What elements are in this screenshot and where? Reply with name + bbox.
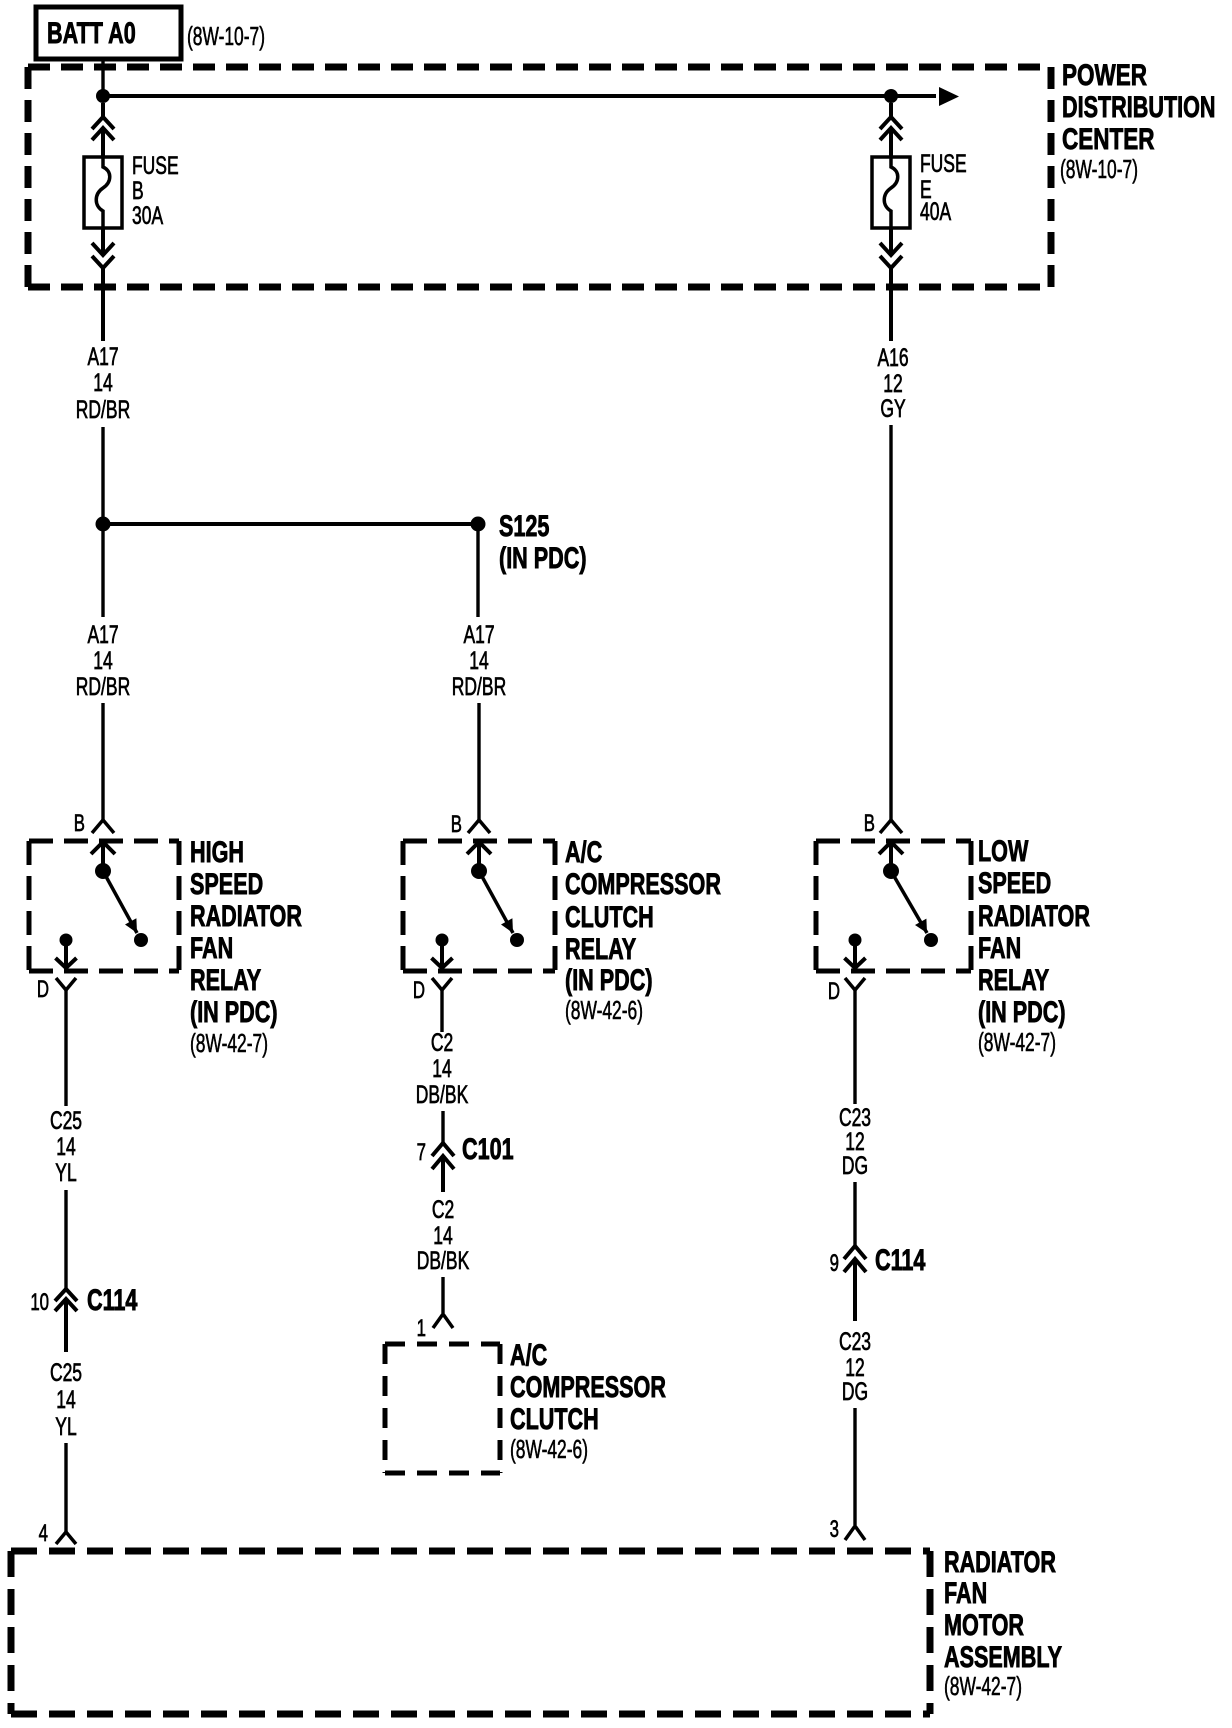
- svg-text:A/C: A/C: [510, 1337, 547, 1371]
- svg-text:3: 3: [830, 1516, 839, 1543]
- svg-text:(8W-42-6): (8W-42-6): [510, 1435, 588, 1464]
- relay 2 switch arm: [479, 871, 513, 933]
- pin 1 fork into A/C compressor clutch: [433, 1314, 453, 1328]
- svg-text:GY: GY: [880, 394, 905, 423]
- splice S125 horizontal wire: [103, 522, 478, 526]
- relay 3 common pivot dot: [883, 863, 899, 879]
- relay 1 name label: [190, 834, 302, 1057]
- svg-text:14: 14: [469, 646, 488, 675]
- wire label A17 14 RD/BR (left second): [76, 620, 130, 701]
- svg-text:A17: A17: [463, 620, 494, 649]
- wire label C25 14 YL (upper): [50, 1106, 82, 1187]
- wire fuse E down to relay 3 pin B: [889, 425, 892, 820]
- svg-text:DB/BK: DB/BK: [417, 1246, 470, 1275]
- svg-text:FAN: FAN: [978, 930, 1021, 964]
- svg-text:14: 14: [93, 368, 112, 397]
- connector C114 pin 10 chevrons: [55, 1289, 77, 1352]
- wire down to connector C114 pin 9: [853, 1182, 856, 1247]
- bus wire across PDC: [103, 94, 936, 98]
- svg-text:A17: A17: [87, 620, 118, 649]
- svg-text:SPEED: SPEED: [190, 866, 263, 900]
- svg-text:(8W-42-7): (8W-42-7): [190, 1029, 268, 1058]
- junction dot left of S125: [96, 517, 111, 532]
- fuse B top terminal chevrons: [92, 103, 114, 157]
- svg-text:(IN PDC): (IN PDC): [565, 962, 653, 996]
- junction node at fuse B: [96, 89, 110, 103]
- svg-text:C2: C2: [431, 1028, 453, 1057]
- relay 3 pin D arrow: [845, 938, 866, 968]
- svg-text:7: 7: [417, 1139, 426, 1166]
- A/C compressor clutch dashed box: [385, 1344, 500, 1473]
- wire down to relay 2 pin B: [477, 703, 480, 820]
- relay 1 contact dot: [134, 933, 148, 947]
- svg-text:4: 4: [39, 1520, 48, 1547]
- wire label A16 12 GY: [877, 343, 908, 423]
- svg-text:D: D: [413, 977, 425, 1004]
- wire label C25 14 YL (lower): [50, 1358, 82, 1441]
- relay 2 pin B arrow: [467, 842, 491, 871]
- svg-text:RD/BR: RD/BR: [76, 672, 130, 701]
- svg-text:RADIATOR: RADIATOR: [978, 898, 1090, 932]
- connector C101 pin 7 chevrons: [432, 1143, 454, 1192]
- svg-text:B: B: [864, 810, 875, 837]
- fuse E top terminal chevrons: [880, 103, 902, 157]
- svg-text:A/C: A/C: [565, 834, 602, 868]
- svg-text:RADIATOR: RADIATOR: [944, 1544, 1056, 1578]
- svg-text:(8W-42-7): (8W-42-7): [978, 1028, 1056, 1057]
- svg-text:RD/BR: RD/BR: [452, 672, 506, 701]
- power distribution center name label: [1060, 58, 1216, 184]
- svg-text:C114: C114: [875, 1242, 926, 1276]
- svg-text:YL: YL: [55, 1158, 76, 1187]
- wire label A17 14 RD/BR (middle): [452, 620, 506, 701]
- bus arrow head: [939, 87, 959, 106]
- svg-text:C25: C25: [50, 1358, 82, 1387]
- relay 2 pin D dot: [436, 934, 449, 947]
- pin 4 fork into fan motor assembly: [56, 1532, 76, 1544]
- low speed radiator fan relay dashed box: [816, 841, 971, 971]
- svg-text:(IN PDC): (IN PDC): [190, 994, 278, 1028]
- wire down to fan motor pin 3: [853, 1408, 856, 1525]
- relay 2 pin D fork: [432, 978, 452, 990]
- svg-text:LOW: LOW: [978, 833, 1029, 867]
- svg-text:(8W-10-7): (8W-10-7): [187, 22, 265, 51]
- relay 2 name label: [565, 834, 721, 1024]
- wire left column S125 to label: [101, 531, 104, 617]
- wire down to A/C compressor clutch pin 1: [441, 1277, 444, 1313]
- pin B fork into relay 1: [92, 820, 114, 833]
- svg-text:14: 14: [56, 1132, 75, 1161]
- svg-text:D: D: [37, 976, 49, 1003]
- wire down to connector C114 pin 10: [64, 1190, 67, 1289]
- svg-text:14: 14: [56, 1385, 75, 1414]
- svg-text:A17: A17: [87, 342, 118, 371]
- svg-text:9: 9: [830, 1250, 839, 1277]
- wire relay 3 pin D down: [853, 990, 856, 1104]
- svg-text:B: B: [451, 811, 462, 838]
- wire label C2 14 DB/BK (lower): [417, 1195, 470, 1275]
- svg-text:D: D: [828, 978, 840, 1005]
- fuse E: [872, 157, 910, 228]
- wire S125 down middle column: [476, 531, 479, 617]
- svg-text:(8W-42-7): (8W-42-7): [944, 1672, 1022, 1701]
- svg-text:C23: C23: [839, 1327, 871, 1356]
- svg-text:40A: 40A: [920, 197, 952, 226]
- wire down to relay 1 pin B: [101, 703, 104, 820]
- pin B fork into relay 3: [880, 820, 902, 833]
- svg-text:YL: YL: [55, 1412, 76, 1441]
- fuse E label FUSE E 40A: [920, 149, 967, 226]
- relay 3 switch arm: [891, 871, 927, 933]
- svg-text:FAN: FAN: [944, 1575, 987, 1609]
- svg-text:POWER: POWER: [1062, 58, 1147, 92]
- fuse B bottom terminal chevrons: [92, 228, 114, 341]
- wire label C23 12 DG (upper): [839, 1103, 871, 1180]
- svg-text:FAN: FAN: [190, 930, 233, 964]
- pin 3 fork into fan motor assembly: [845, 1526, 865, 1540]
- svg-text:RADIATOR: RADIATOR: [190, 898, 302, 932]
- wire A17 down to splice S125: [101, 427, 104, 524]
- A/C compressor clutch name label: [510, 1337, 666, 1463]
- svg-text:SPEED: SPEED: [978, 865, 1051, 899]
- relay 1 switch arm: [103, 871, 137, 933]
- svg-text:(8W-42-6): (8W-42-6): [565, 996, 643, 1025]
- relay 3 name label: [978, 833, 1090, 1056]
- svg-text:CLUTCH: CLUTCH: [565, 899, 654, 933]
- relay 1 pin D dot: [60, 934, 73, 947]
- wire relay 2 pin D down: [440, 990, 443, 1032]
- svg-text:RELAY: RELAY: [565, 931, 636, 965]
- label S125 (IN PDC): [499, 508, 587, 574]
- svg-text:C25: C25: [50, 1106, 82, 1135]
- svg-text:MOTOR: MOTOR: [944, 1607, 1024, 1641]
- relay 1 common pivot dot: [95, 863, 111, 879]
- relay 2 pin D arrow: [432, 938, 453, 968]
- high speed radiator fan relay dashed box: [29, 841, 179, 971]
- svg-text:DISTRIBUTION: DISTRIBUTION: [1062, 89, 1216, 123]
- svg-text:CENTER: CENTER: [1062, 122, 1154, 156]
- svg-text:30A: 30A: [132, 201, 164, 230]
- svg-text:CLUTCH: CLUTCH: [510, 1401, 599, 1435]
- radiator fan motor assembly name label: [944, 1544, 1062, 1700]
- svg-text:(8W-10-7): (8W-10-7): [1060, 155, 1138, 184]
- svg-text:A16: A16: [877, 343, 908, 372]
- splice node S125: [471, 517, 486, 532]
- svg-text:14: 14: [432, 1054, 451, 1083]
- svg-text:HIGH: HIGH: [190, 834, 244, 868]
- svg-text:C2: C2: [432, 1195, 454, 1224]
- power distribution center dashed box: [28, 67, 1051, 287]
- battery feed box BATT A0: [36, 7, 181, 59]
- wire label A17 14 RD/BR (upper left): [76, 342, 130, 424]
- relay 1 pin D fork: [56, 978, 76, 990]
- svg-text:RD/BR: RD/BR: [76, 395, 130, 424]
- svg-text:C101: C101: [462, 1131, 514, 1165]
- svg-text:(IN PDC): (IN PDC): [499, 540, 587, 574]
- svg-text:DB/BK: DB/BK: [416, 1080, 469, 1109]
- svg-text:FUSE: FUSE: [920, 149, 967, 178]
- wire label C23 12 DG (lower): [839, 1327, 871, 1406]
- wire relay 1 pin D down: [64, 990, 67, 1106]
- svg-text:DG: DG: [842, 1377, 868, 1406]
- svg-text:1: 1: [417, 1315, 426, 1342]
- wire down to fan motor pin 4: [64, 1443, 67, 1532]
- svg-text:S125: S125: [499, 508, 549, 542]
- relay 3 pin D fork: [845, 978, 865, 990]
- svg-text:BATT A0: BATT A0: [47, 15, 136, 49]
- svg-text:14: 14: [93, 646, 112, 675]
- relay 3 contact dot: [924, 933, 938, 947]
- svg-text:COMPRESSOR: COMPRESSOR: [565, 866, 721, 900]
- svg-text:COMPRESSOR: COMPRESSOR: [510, 1369, 666, 1403]
- wire BATT A0 down to PDC bus: [101, 57, 104, 96]
- junction node at fuse E: [884, 89, 898, 103]
- relay 2 common pivot dot: [471, 863, 487, 879]
- A/C compressor clutch relay dashed box: [403, 841, 555, 971]
- svg-text:RELAY: RELAY: [978, 962, 1049, 996]
- relay 3 pin D dot: [849, 934, 862, 947]
- connector C114 pin 9 chevrons: [844, 1246, 866, 1321]
- relay 1 pin D arrow: [56, 938, 77, 968]
- wire down to connector C101 pin 7: [441, 1111, 444, 1144]
- relay 2 contact dot: [510, 933, 524, 947]
- svg-text:ASSEMBLY: ASSEMBLY: [944, 1639, 1062, 1673]
- relay 1 pin B arrow: [91, 842, 115, 871]
- fuse E bottom terminal chevrons: [880, 228, 902, 341]
- radiator fan motor assembly dashed box: [11, 1551, 930, 1714]
- fuse B: [84, 157, 122, 228]
- svg-text:C114: C114: [87, 1282, 138, 1316]
- relay 3 pin B arrow: [879, 842, 903, 871]
- svg-text:(IN PDC): (IN PDC): [978, 994, 1066, 1028]
- pin B fork into relay 2: [468, 820, 490, 833]
- fuse B label FUSE B 30A: [132, 151, 179, 230]
- wire label C2 14 DB/BK (upper): [416, 1028, 469, 1109]
- svg-text:10: 10: [30, 1289, 49, 1316]
- svg-text:RELAY: RELAY: [190, 962, 261, 996]
- svg-text:DG: DG: [842, 1151, 868, 1180]
- svg-text:B: B: [74, 810, 85, 837]
